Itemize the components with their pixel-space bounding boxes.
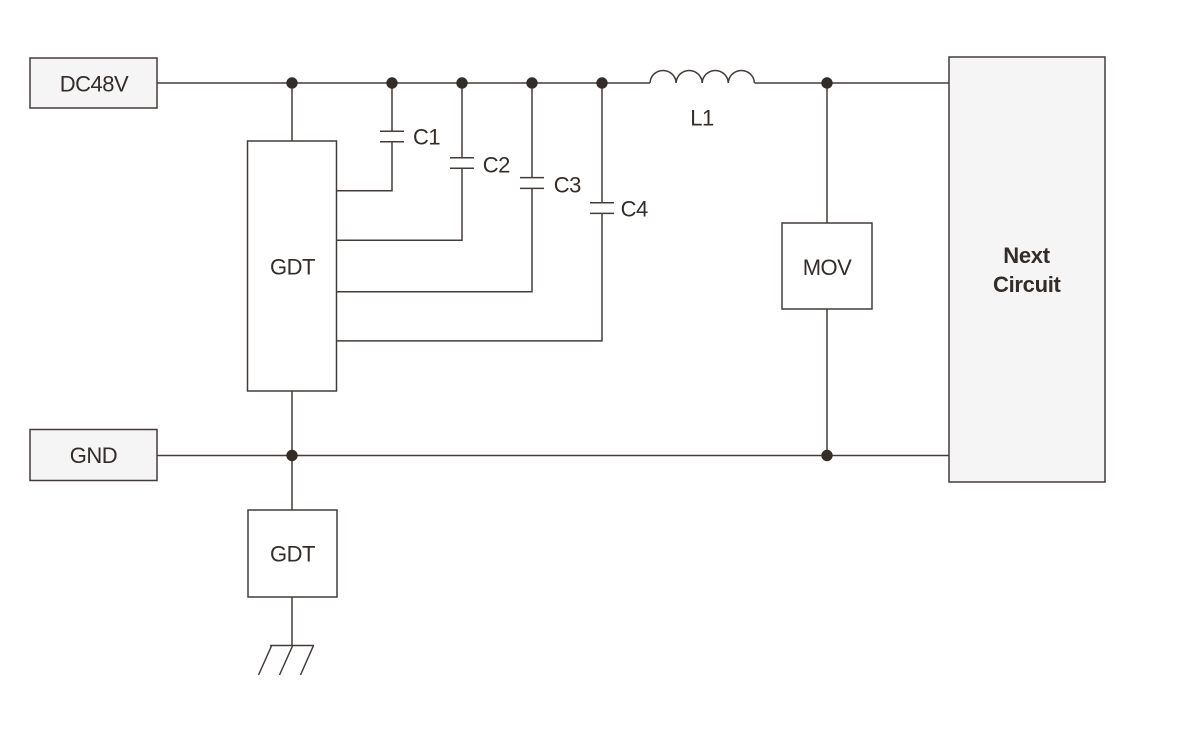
svg-text:GDT: GDT xyxy=(270,255,315,280)
svg-text:C1: C1 xyxy=(413,125,440,150)
svg-text:MOV: MOV xyxy=(803,255,852,280)
svg-text:DC48V: DC48V xyxy=(60,71,129,96)
svg-text:C2: C2 xyxy=(483,153,510,178)
svg-text:C4: C4 xyxy=(621,196,648,221)
svg-text:GND: GND xyxy=(70,443,117,468)
svg-text:C3: C3 xyxy=(554,173,581,198)
svg-text:L1: L1 xyxy=(690,106,714,131)
svg-text:GDT: GDT xyxy=(270,542,315,567)
svg-text:Next: Next xyxy=(1003,243,1050,268)
svg-text:Circuit: Circuit xyxy=(993,272,1062,297)
